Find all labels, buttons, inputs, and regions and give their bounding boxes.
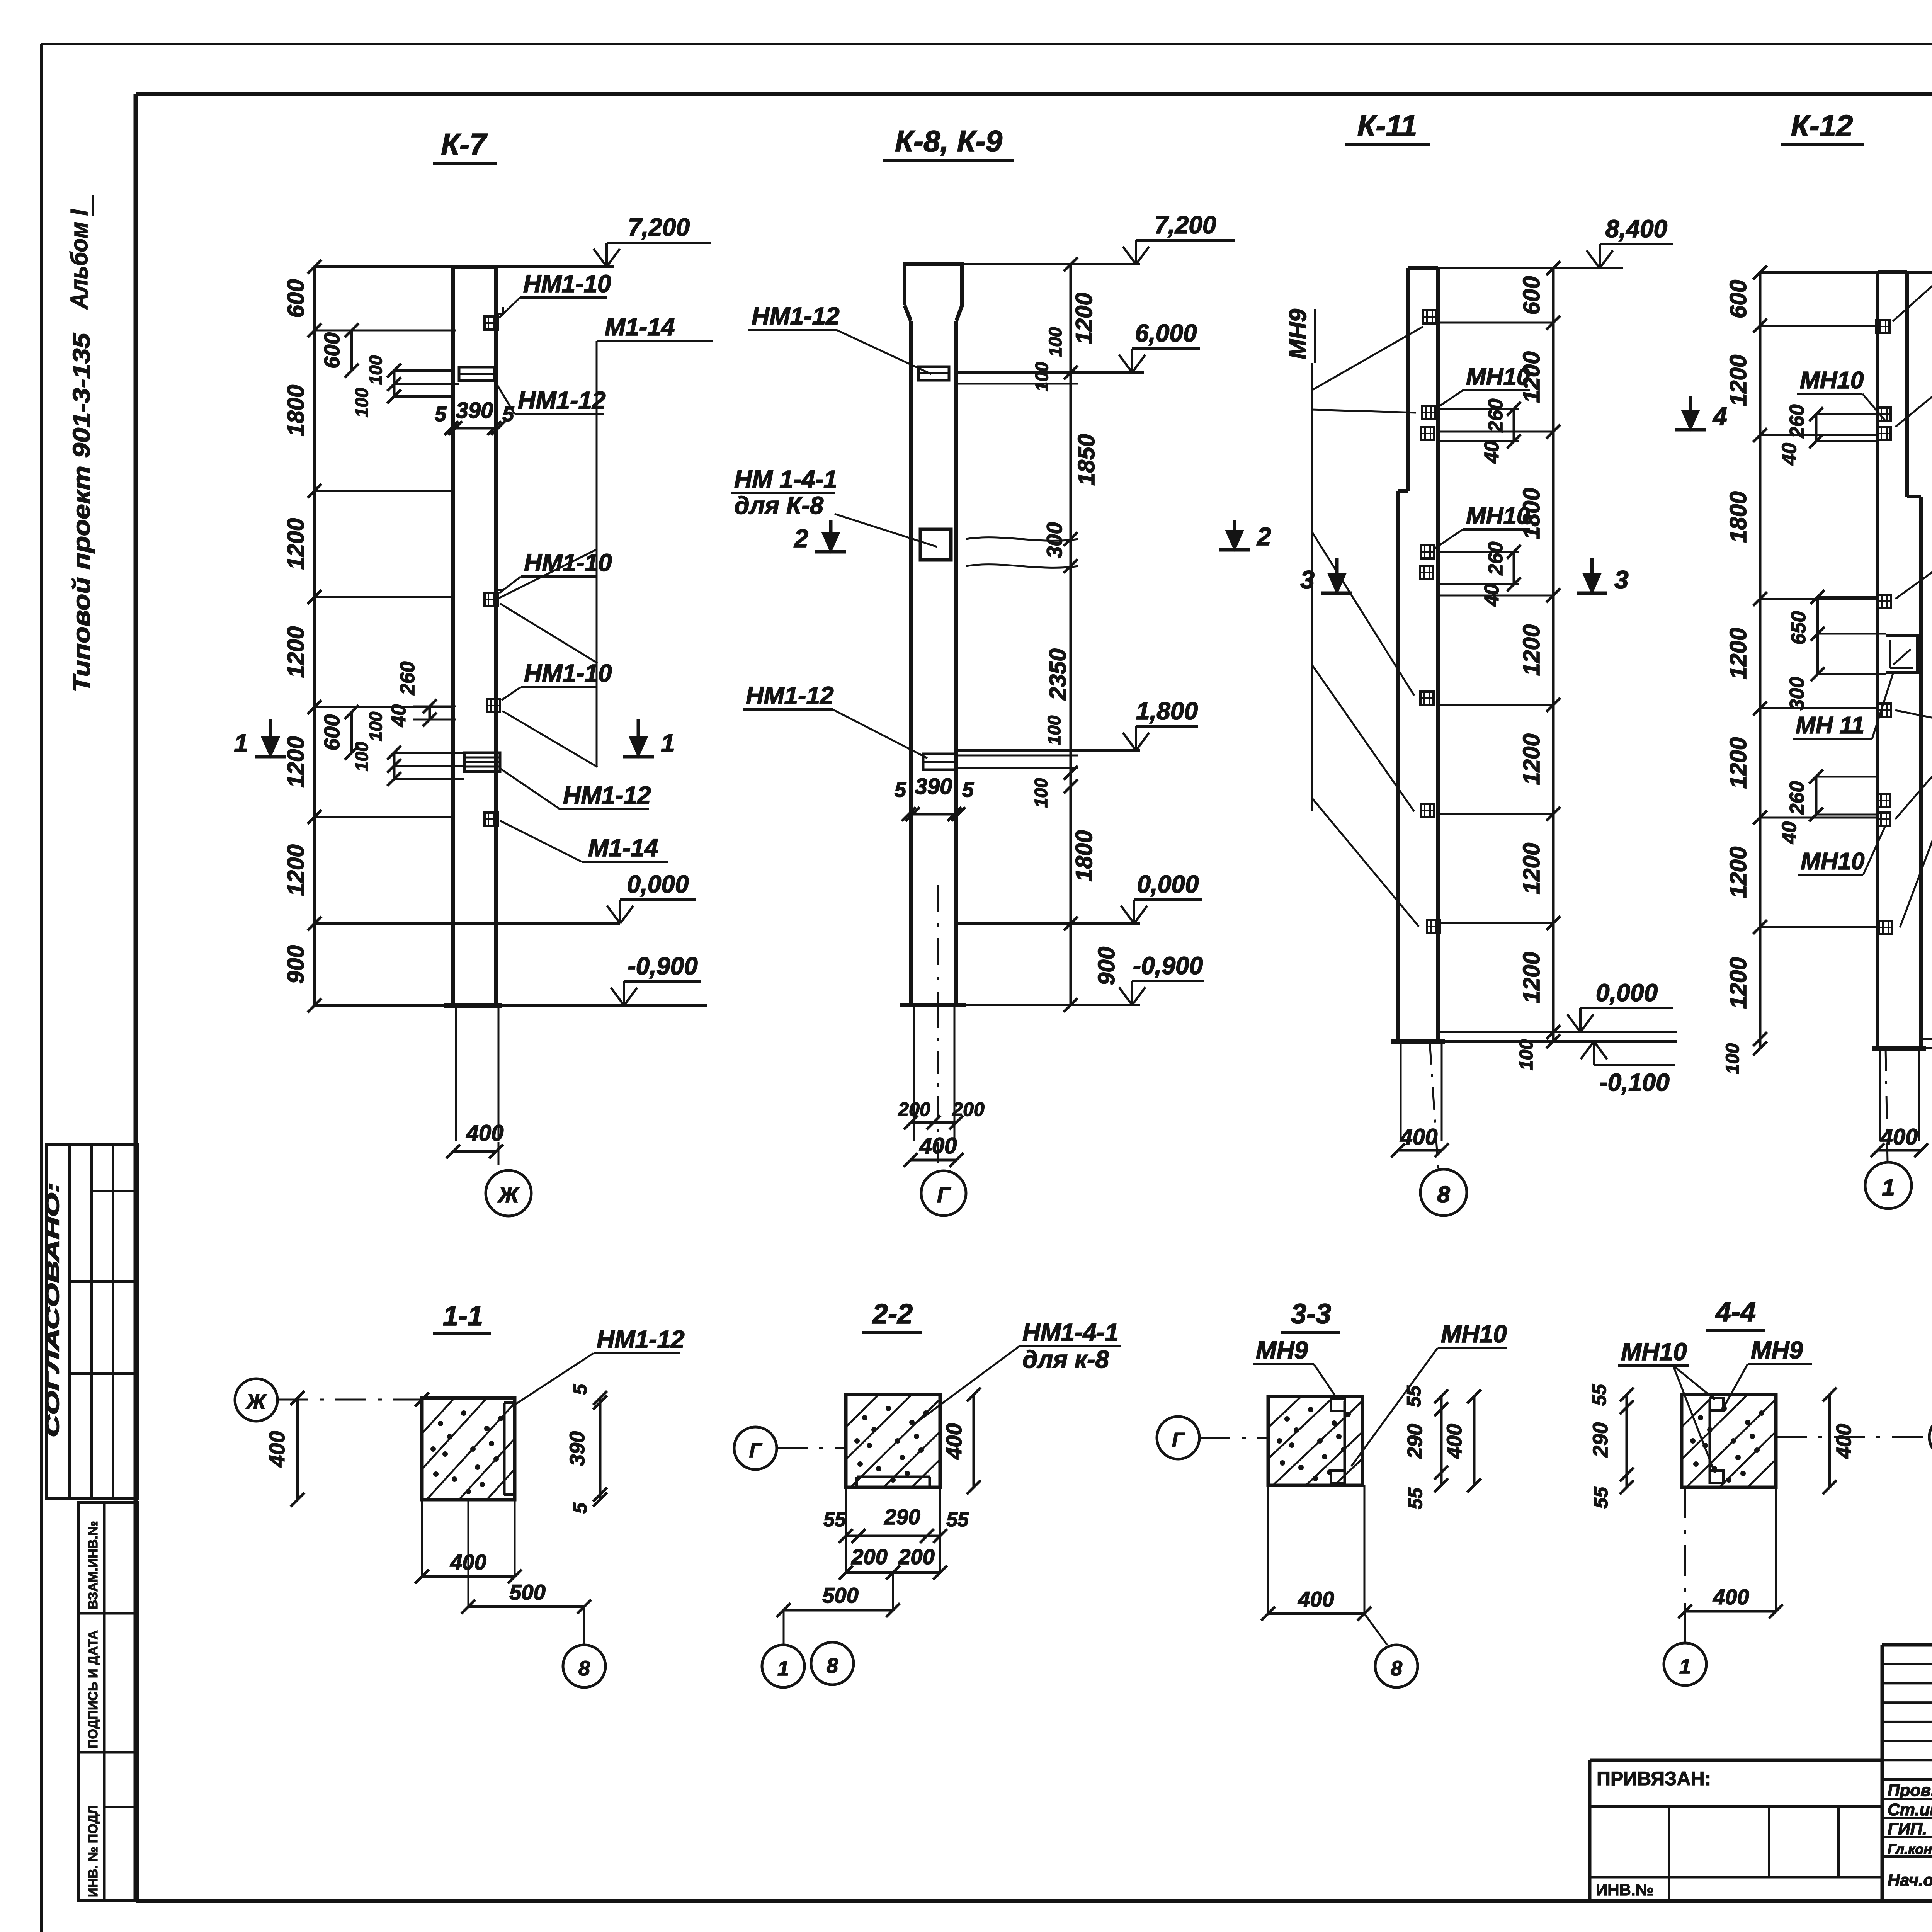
dim 5 390 5 K-7 [451,427,498,430]
dim 400 bottom 4-4 [1685,1610,1776,1613]
dim 500 bottom 2-2 [784,1609,893,1612]
svg-text:НМ1-4-1: НМ1-4-1 [1022,1318,1119,1346]
svg-text:МН10: МН10 [1800,367,1864,394]
section mark 1 left [269,719,272,757]
svg-text:МН 11: МН 11 [1796,712,1864,739]
sub dims 650 300 K-12 [1818,596,1878,598]
svg-text:Типовой проект 901-3-135: Типовой проект 901-3-135 [68,332,95,692]
K-8 level lines/flags [962,263,1140,265]
svg-text:Гл.констр: Гл.констр [1888,1841,1932,1857]
svg-text:600: 600 [320,714,344,750]
svg-text:-0,100: -0,100 [1599,1068,1669,1096]
level 8,400 K-11 [1438,267,1623,269]
grid axis 1 (K-12) [1886,1048,1888,1162]
axis circle 8 section 1-1 [583,1607,585,1645]
dim 400 right 3-3 [1473,1396,1476,1485]
svg-text:260: 260 [1485,399,1507,433]
svg-text:900: 900 [1094,947,1119,985]
svg-text:55: 55 [1405,1487,1426,1509]
dim 500 bottom 1-1 [468,1605,584,1608]
privyazan box [1588,1760,1592,1900]
svg-text:МН9: МН9 [1256,1336,1308,1364]
axis circle 8 section 3-3 [1364,1614,1387,1645]
dims 5 390 5 right 1-1 [599,1398,602,1500]
section mark 2 right [1233,520,1236,550]
grid axis Г (K-8) [937,1005,939,1163]
svg-text:1200: 1200 [1519,843,1544,894]
embed plate 4 K-7 [485,813,498,826]
svg-text:НМ1-12: НМ1-12 [746,682,834,709]
sub dims 600 / 100 100 upper K-7 [350,330,353,371]
svg-text:390: 390 [915,774,952,799]
svg-text:400: 400 [1832,1424,1855,1459]
grid axis Ж [498,1005,500,1165]
svg-text:40: 40 [1481,441,1503,464]
svg-text:Альбом I: Альбом I [66,209,93,310]
corbel plate HM1-12 upper K-8 [918,367,949,380]
svg-text:100: 100 [1031,778,1051,808]
svg-text:К-8, К-9: К-8, К-9 [895,124,1003,158]
svg-text:8,400: 8,400 [1605,215,1667,243]
svg-text:1200: 1200 [1071,293,1097,344]
corbel plates HM1-12 upper K-7 [394,369,453,372]
title block frame [1881,1645,1884,1901]
section mark 3 left K-11 [1335,558,1339,593]
svg-text:ГИП.: ГИП. [1888,1820,1927,1838]
svg-text:-0,900: -0,900 [628,952,697,980]
level 7,200 [594,249,607,267]
svg-text:390: 390 [456,398,493,423]
axis circle 1 section 4-4 [1684,1611,1686,1643]
svg-text:100: 100 [1516,1039,1537,1070]
svg-text:1800: 1800 [283,385,309,436]
svg-text:3: 3 [1300,565,1315,594]
dim 400 right 2-2 [973,1395,975,1487]
svg-text:400: 400 [942,1423,966,1459]
svg-text:НМ 1-4-1: НМ 1-4-1 [734,465,837,493]
dim 400 bottom 3-3 [1268,1612,1364,1615]
svg-text:Ж: Ж [497,1182,520,1207]
svg-text:55: 55 [823,1509,846,1531]
svg-text:400: 400 [1400,1124,1438,1150]
svg-text:8: 8 [578,1657,590,1680]
svg-text:Ж: Ж [245,1390,267,1413]
svg-text:100: 100 [366,355,386,385]
dims 55 290 55 bottom 2-2 [846,1535,940,1537]
svg-text:390: 390 [566,1431,589,1466]
svg-text:40: 40 [1778,821,1801,844]
svg-text:Нач.отд: Нач.отд [1888,1871,1932,1890]
svg-text:260: 260 [396,662,419,696]
svg-text:7,200: 7,200 [628,213,690,241]
svg-text:для к-8: для к-8 [1022,1345,1109,1373]
svg-text:100: 100 [1045,327,1065,357]
svg-text:ПРИВЯЗАН:: ПРИВЯЗАН: [1597,1768,1711,1789]
left dim chain K-12 [1759,272,1762,1048]
svg-text:1200: 1200 [1725,355,1751,406]
svg-text:0,000: 0,000 [1596,979,1658,1007]
svg-text:1850: 1850 [1073,434,1099,485]
svg-text:НМ1-12: НМ1-12 [752,302,840,330]
svg-text:200: 200 [898,1544,934,1569]
svg-text:5: 5 [435,403,447,426]
svg-text:1-1: 1-1 [443,1301,483,1332]
svg-text:2350: 2350 [1045,648,1071,700]
svg-text:1200: 1200 [283,518,309,570]
MH11 box K-12 [1886,635,1918,673]
svg-text:СОГЛАСОВАНО:: СОГЛАСОВАНО: [43,1182,63,1437]
outer page border [41,43,1932,45]
MH10 label lower K-12 [1816,776,1878,778]
svg-text:200: 200 [898,1099,930,1120]
svg-text:Ст.инж: Ст.инж [1888,1800,1932,1819]
svg-text:ИНВ.№: ИНВ.№ [1596,1881,1653,1899]
svg-text:200: 200 [952,1099,985,1120]
embed plate HM1-10 top K-7 [485,316,498,330]
svg-text:1,800: 1,800 [1136,697,1198,725]
svg-text:К-12: К-12 [1791,109,1853,143]
level 0,000 K-12 [1921,1038,1932,1040]
axis circle Ж section 1-1 [235,1379,277,1421]
svg-text:400: 400 [265,1431,289,1467]
MH9 leader fan K-11 [1311,363,1313,811]
svg-text:400: 400 [1880,1124,1918,1150]
svg-text:8: 8 [1437,1182,1450,1207]
svg-text:100: 100 [352,388,372,417]
svg-text:НМ1-10: НМ1-10 [524,659,612,687]
console box K-7 [394,752,464,754]
svg-text:290: 290 [1403,1424,1427,1459]
svg-text:МН10: МН10 [1466,364,1530,390]
svg-text:1200: 1200 [1725,847,1751,898]
level -0,900 K-7 [502,1004,707,1007]
svg-text:7,200: 7,200 [1154,211,1216,239]
svg-text:260: 260 [1786,781,1808,815]
svg-text:Г: Г [937,1183,951,1207]
svg-text:5: 5 [502,403,514,426]
dim 400 bottom 1-1 [422,1575,515,1578]
dim 400 K-7 [453,1150,496,1153]
section mark 4 right K-11 [1689,396,1692,430]
svg-text:ВЗАМ.ИНВ.№: ВЗАМ.ИНВ.№ [86,1521,100,1609]
svg-text:300: 300 [1786,677,1808,711]
svg-text:5: 5 [569,1384,591,1395]
svg-text:1200: 1200 [1725,737,1751,789]
axis circle Г section 4-4 [1929,1416,1932,1458]
svg-text:НМ1-12: НМ1-12 [563,781,651,809]
svg-text:М1-14: М1-14 [605,313,675,341]
svg-text:1200: 1200 [1519,624,1544,676]
svg-text:55: 55 [1588,1384,1610,1406]
svg-text:МН9: МН9 [1285,309,1311,359]
svg-text:650: 650 [1787,611,1810,645]
axis circles 1 and 8 section 2-2 [783,1610,785,1645]
svg-text:МН10: МН10 [1441,1320,1507,1348]
svg-text:1: 1 [1679,1655,1691,1678]
right dim chain K-8 [1070,264,1072,1005]
svg-text:3-3: 3-3 [1291,1299,1331,1330]
svg-text:МН9: МН9 [1751,1336,1803,1364]
svg-text:600: 600 [1519,276,1544,315]
svg-text:400: 400 [1443,1424,1466,1459]
dim 400 K-12 [1878,1149,1921,1152]
K-12 embed plates [1876,320,1889,333]
svg-text:1: 1 [777,1657,789,1680]
level 0,000 K-11 [1438,1031,1677,1033]
dims 200 200 400 K-8 [911,1121,956,1124]
svg-text:0,000: 0,000 [627,870,689,898]
dims 55 290 55 left 4-4 [1626,1395,1628,1487]
svg-text:для К-8: для К-8 [734,492,824,519]
axis circle Г section 2-2 [734,1427,777,1469]
svg-text:2: 2 [1256,522,1271,551]
sidebar lower cells [79,1502,138,1900]
svg-text:40: 40 [388,704,410,727]
svg-text:500: 500 [822,1583,858,1607]
svg-text:1200: 1200 [1519,952,1544,1003]
svg-text:1200: 1200 [283,626,309,678]
axis circle Г section 3-3 [1157,1417,1199,1459]
svg-text:1800: 1800 [1725,491,1751,543]
level -0,100 K-12 [1926,1047,1932,1049]
svg-text:-0,900: -0,900 [1133,952,1203,980]
svg-text:НМ1-12: НМ1-12 [597,1325,685,1353]
dims 200 200 bottom 2-2 [846,1571,940,1574]
svg-text:Г: Г [749,1439,762,1462]
M1-14 leader spine [596,341,598,767]
svg-text:100: 100 [1723,1043,1743,1074]
svg-text:2: 2 [793,524,808,553]
svg-text:6,000: 6,000 [1135,319,1197,347]
svg-text:40: 40 [1481,584,1503,607]
svg-text:900: 900 [283,945,309,984]
svg-text:260: 260 [1786,405,1808,439]
corbel plate HM1-12 lower K-8 [923,754,955,770]
svg-text:500: 500 [509,1580,545,1604]
svg-text:МН10: МН10 [1621,1338,1687,1366]
svg-text:ИНВ. № ПОДЛ: ИНВ. № ПОДЛ [86,1805,100,1897]
svg-text:3: 3 [1614,565,1629,594]
sub dim 40 260 K-7 [413,706,456,707]
svg-text:100: 100 [366,711,386,741]
svg-text:55: 55 [1403,1385,1425,1407]
section mark 3 right K-11 [1590,558,1594,593]
svg-text:1200: 1200 [1519,733,1544,785]
svg-text:260: 260 [1485,542,1507,576]
svg-text:290: 290 [1589,1422,1612,1458]
svg-text:1: 1 [234,729,248,757]
svg-text:1: 1 [661,729,675,757]
svg-text:0,000: 0,000 [1137,870,1199,898]
dims 55 290 55 right 3-3 [1440,1396,1443,1485]
svg-text:600: 600 [283,279,309,318]
sidebar approval table [46,1145,138,1499]
svg-text:400: 400 [919,1133,957,1158]
svg-text:1200: 1200 [1725,957,1751,1009]
svg-text:200: 200 [851,1544,887,1569]
svg-text:400: 400 [1713,1585,1749,1609]
svg-text:55: 55 [946,1509,969,1531]
embed plate 3 K-7 [487,699,500,712]
svg-text:1800: 1800 [1071,830,1097,881]
dim 400 right 4-4 [1828,1395,1831,1487]
dim 400 K-11 [1398,1149,1442,1152]
svg-text:Пров.: Пров. [1888,1781,1932,1800]
grid axis 8 (K-11) [1430,1041,1438,1169]
left dimension chain K-7 [313,267,316,1005]
svg-text:100: 100 [1044,715,1064,745]
svg-text:100: 100 [352,742,372,771]
svg-text:8: 8 [1391,1657,1402,1680]
svg-text:1: 1 [1882,1175,1895,1201]
svg-text:100: 100 [1032,362,1052,391]
level 0,000 K-7 [607,906,620,923]
embed HM1-4-1 K-8 [920,529,951,560]
section break lines K-8 [966,537,1078,541]
svg-text:600: 600 [320,332,344,368]
svg-text:НМ1-10: НМ1-10 [524,549,612,577]
svg-text:400: 400 [1298,1587,1334,1611]
dim 400 vertical 1-1 [296,1398,299,1500]
dim 5 390 5 K-8 [909,813,958,816]
svg-text:НМ1-10: НМ1-10 [523,270,611,298]
svg-text:4-4: 4-4 [1715,1297,1756,1328]
svg-text:МН10: МН10 [1801,848,1864,875]
svg-text:К-7: К-7 [441,127,488,161]
svg-text:К-11: К-11 [1357,109,1417,143]
svg-text:НМ1-12: НМ1-12 [518,386,606,414]
embed plate 2 K-7 [485,593,498,606]
svg-text:1200: 1200 [1725,628,1751,679]
svg-text:М1-14: М1-14 [588,834,658,862]
svg-text:8: 8 [827,1654,838,1677]
sub dims 600 / 100 100 console K-7 [350,712,353,753]
svg-text:1200: 1200 [283,736,309,787]
svg-text:290: 290 [884,1505,920,1529]
svg-text:40: 40 [1778,443,1801,466]
svg-text:55: 55 [1590,1486,1612,1509]
svg-text:1200: 1200 [283,844,309,896]
right dim chain K-11 [1552,268,1555,1041]
K-11 embed plates [1423,310,1436,323]
section mark 1 right [637,719,640,757]
svg-text:400: 400 [466,1121,504,1146]
level -0,100 K-11 [1391,1040,1677,1043]
svg-text:2-2: 2-2 [872,1299,913,1330]
drawing frame [136,92,1932,96]
level 8,400 K-12 [1760,271,1932,274]
svg-text:ПОДПИСЬ И ДАТА: ПОДПИСЬ И ДАТА [86,1630,100,1748]
svg-text:5: 5 [569,1502,591,1514]
svg-text:4: 4 [1712,402,1727,430]
svg-text:5: 5 [895,778,906,801]
svg-text:МН10: МН10 [1466,503,1530,529]
section mark 2 left [829,520,833,552]
svg-text:Г: Г [1172,1429,1185,1451]
svg-text:5: 5 [962,778,974,801]
svg-text:600: 600 [1725,280,1751,318]
